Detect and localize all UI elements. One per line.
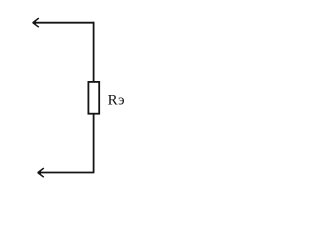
arrowhead top left: [32, 18, 39, 27]
wire vertical lower: [93, 114, 95, 173]
wire vertical upper: [93, 22, 95, 82]
wire bottom horizontal: [38, 172, 94, 174]
arrowhead bottom left: [37, 168, 44, 177]
wire top horizontal: [33, 22, 94, 24]
resistor Rэ: [88, 82, 99, 114]
svg-text:Rэ: Rэ: [108, 93, 125, 109]
